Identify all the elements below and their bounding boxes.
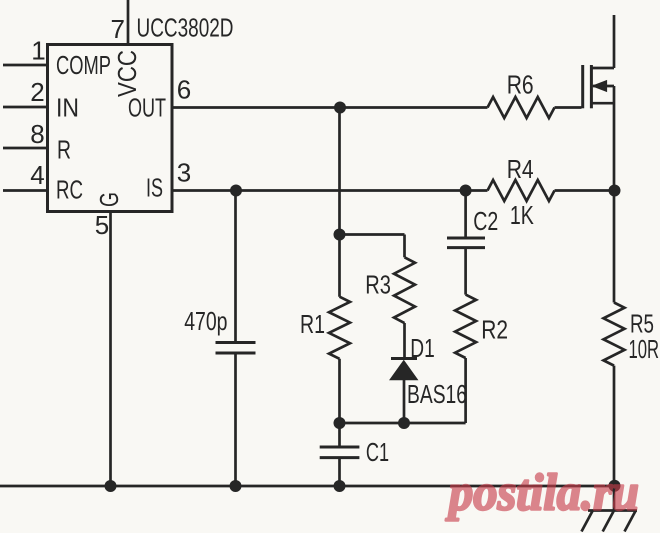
resistor R6 bbox=[488, 97, 555, 118]
pin 5 G wire bbox=[109, 212, 112, 486]
svg-text:7: 7 bbox=[111, 14, 125, 44]
wire R6 to gate bbox=[555, 106, 582, 109]
transistor Q1 gate bar bbox=[581, 65, 584, 108]
op-amp U1 UCC3802D IC body bbox=[48, 45, 173, 212]
svg-text:5: 5 bbox=[95, 210, 109, 240]
node junction dot bus-pin5 bbox=[105, 480, 117, 492]
svg-text:3: 3 bbox=[177, 157, 191, 187]
svg-text:470p: 470p bbox=[184, 306, 227, 336]
resistor R2 bbox=[455, 295, 476, 358]
wire R3 to D1 bbox=[403, 323, 406, 358]
pin 4 stub bbox=[3, 189, 46, 192]
capacitor C1 bottom plate bbox=[320, 456, 360, 459]
node junction dot R1-C1 bbox=[334, 417, 346, 429]
node junction dot bus-470p bbox=[230, 480, 242, 492]
svg-text:UCC3802D: UCC3802D bbox=[137, 12, 234, 42]
transistor Q1 body arrowhead bbox=[593, 81, 607, 92]
wire OUT drop vertical to R1 bbox=[338, 108, 341, 297]
wire R2 bottom bend bbox=[464, 358, 467, 423]
ground symbol hatch 2 bbox=[603, 511, 614, 532]
svg-text:IN: IN bbox=[56, 93, 79, 123]
diode D1 BAS16 cathode bar bbox=[391, 357, 417, 360]
svg-text:R2: R2 bbox=[481, 315, 508, 345]
ground symbol bar bbox=[588, 509, 637, 512]
wire D1 anode down bbox=[403, 379, 406, 423]
svg-text:G: G bbox=[94, 192, 124, 207]
svg-text:VCC: VCC bbox=[112, 50, 142, 97]
resistor R4 bbox=[488, 180, 555, 201]
node junction dot D1-bottom bbox=[398, 417, 410, 429]
svg-text:C2: C2 bbox=[473, 206, 498, 236]
resistor R3 bbox=[394, 257, 415, 323]
svg-text:RC: RC bbox=[56, 175, 83, 205]
pin 1 stub bbox=[3, 64, 46, 67]
node junction dot source-R4 bbox=[609, 185, 621, 197]
svg-text:6: 6 bbox=[177, 74, 191, 104]
svg-text:1: 1 bbox=[31, 36, 45, 66]
capacitor C1 top plate bbox=[320, 446, 360, 449]
capacitor 470p top plate bbox=[216, 341, 256, 344]
capacitor 470p bottom wire bbox=[234, 354, 237, 486]
diode D1 triangle bbox=[391, 361, 418, 380]
svg-text:2: 2 bbox=[30, 77, 44, 107]
transistor Q1 drain wire up bbox=[613, 15, 616, 68]
transistor Q1 drain horizontal bbox=[591, 67, 614, 70]
svg-text:R1: R1 bbox=[300, 309, 325, 339]
svg-text:COMP: COMP bbox=[56, 50, 111, 80]
ground symbol hatch 1 bbox=[582, 511, 593, 532]
svg-text:R: R bbox=[57, 134, 71, 164]
svg-text:D1: D1 bbox=[410, 333, 435, 363]
capacitor 470p bottom plate bbox=[216, 352, 256, 355]
wire R4 to MOSFET source node bbox=[555, 189, 615, 192]
svg-text:BAS16: BAS16 bbox=[407, 379, 467, 409]
node junction dot OUT-R1 bbox=[334, 102, 346, 114]
capacitor C2 top plate bbox=[447, 237, 485, 240]
wire C1 bottom to ground bus bbox=[338, 459, 341, 486]
wire R5 bottom to ground bbox=[613, 366, 616, 511]
resistor R5 bbox=[604, 303, 625, 366]
svg-text:C1: C1 bbox=[366, 437, 389, 467]
svg-text:postila.ru: postila.ru bbox=[445, 465, 639, 522]
resistor R1 bbox=[329, 297, 350, 359]
capacitor 470p top wire bbox=[234, 191, 237, 343]
capacitor C2 bottom plate bbox=[447, 246, 485, 249]
pin 7 VCC wire bbox=[127, 0, 130, 45]
capacitor C2 top wire bbox=[464, 191, 467, 238]
svg-text:8: 8 bbox=[30, 119, 44, 149]
pin 8 stub bbox=[3, 147, 46, 150]
svg-text:1K: 1K bbox=[510, 200, 534, 230]
svg-text:R3: R3 bbox=[365, 270, 391, 300]
wire R3 top vertical bbox=[403, 235, 406, 258]
node junction dot R1-R3 top bbox=[334, 229, 346, 241]
svg-text:IS: IS bbox=[146, 173, 163, 203]
wire R3 branch horizontal bbox=[340, 233, 405, 236]
wire OUT net pin6 to R6 bbox=[173, 106, 488, 109]
node junction dot bus-R5 bbox=[609, 480, 621, 492]
svg-text:R4: R4 bbox=[507, 154, 534, 184]
wire C2 to R2 bbox=[464, 249, 467, 295]
pin 2 stub bbox=[3, 106, 46, 109]
wire R1 bottom to C1 bbox=[338, 359, 341, 446]
transistor Q1 source horizontal bbox=[591, 102, 614, 105]
node junction dot bus-C1 bbox=[334, 480, 346, 492]
svg-text:R6: R6 bbox=[507, 70, 534, 100]
transistor Q1 body arrow line bbox=[593, 85, 614, 88]
node junction dot IS-C2 bbox=[460, 185, 472, 197]
wire source vertical down to R4 node bbox=[613, 86, 616, 303]
svg-text:10R: 10R bbox=[629, 334, 660, 364]
node junction dot IS-470p bbox=[230, 185, 242, 197]
wire IS net pin3 to C2 junction bbox=[173, 189, 488, 192]
ground symbol hatch 3 bbox=[625, 511, 636, 532]
ground bus wire bbox=[0, 485, 615, 488]
wire bottom network horizontal bbox=[340, 422, 466, 425]
svg-text:4: 4 bbox=[30, 160, 44, 190]
transistor Q1 channel bar bbox=[590, 65, 593, 108]
